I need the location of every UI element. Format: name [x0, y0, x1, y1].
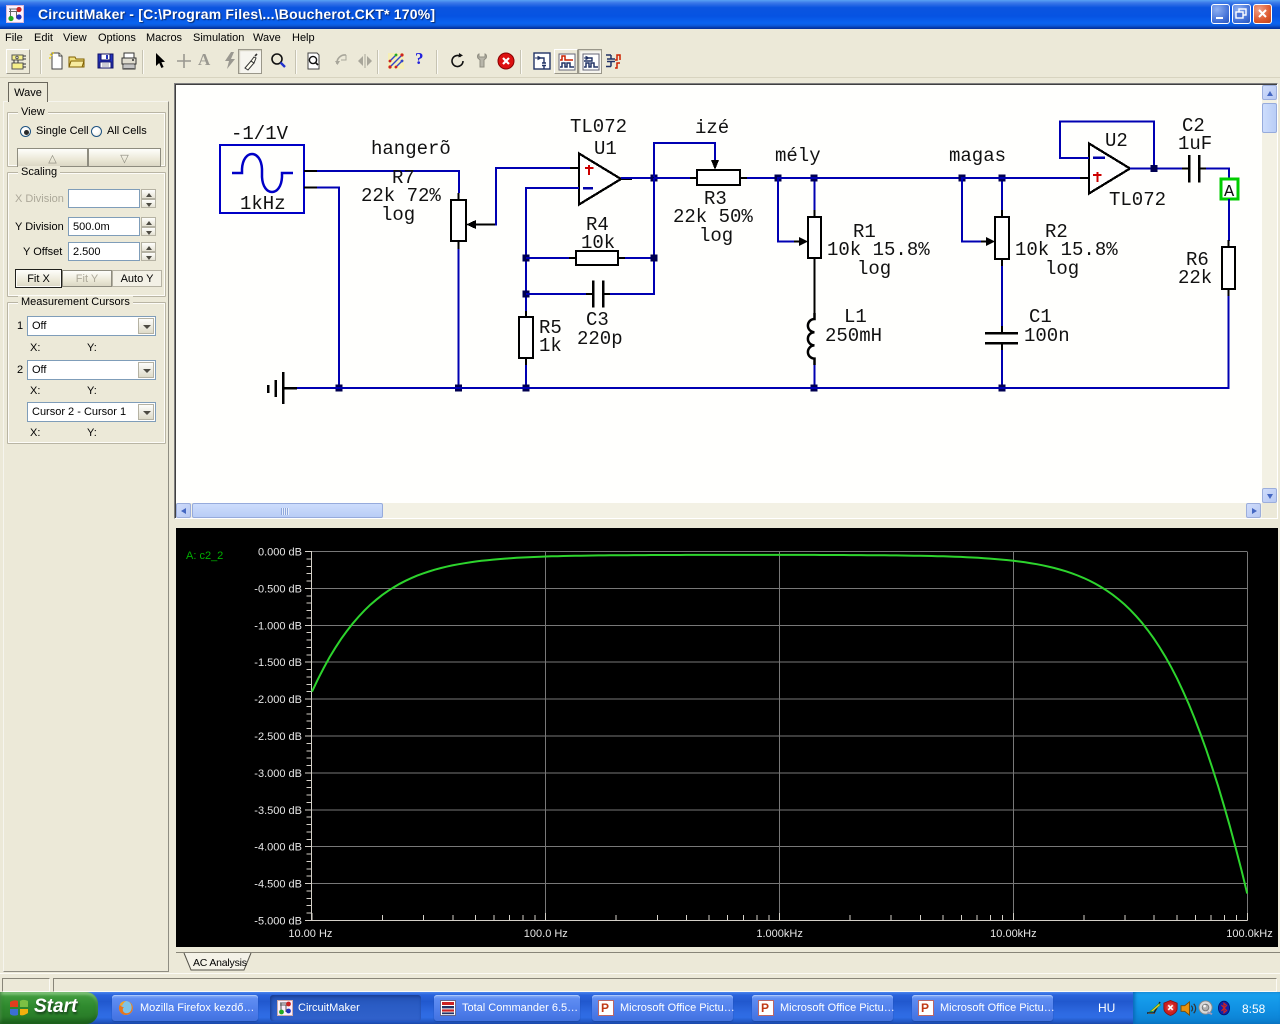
inductor L1	[808, 313, 815, 365]
ground rail wire	[292, 387, 1230, 389]
wire: R7 wiper to U1 noninverting input	[495, 167, 580, 226]
toolbar	[0, 46, 1280, 78]
potentiometer R2	[981, 210, 1009, 266]
ground symbol	[268, 372, 297, 404]
svg-text:-5.000 dB: -5.000 dB	[254, 916, 302, 928]
svg-text:TL072: TL072	[570, 116, 627, 138]
wire: U2 output to C2	[1130, 168, 1183, 170]
junction: R1 top at bus	[811, 175, 818, 182]
wire: R7 bottom to ground rail	[458, 249, 460, 389]
language indicator	[1098, 1001, 1115, 1015]
svg-text:0.000 dB: 0.000 dB	[258, 547, 302, 559]
junction: mely branch	[775, 175, 782, 182]
svg-text:-1.000 dB: -1.000 dB	[254, 620, 302, 632]
R5 value label	[539, 317, 562, 357]
wire: U1 inverting input	[525, 187, 579, 189]
wire: bus to R2 top	[1001, 178, 1003, 210]
C2 value label	[1178, 115, 1212, 155]
wire: U2 feedback loop	[1059, 121, 1155, 170]
wire: output node up and over to R3 wiper	[653, 142, 716, 177]
svg-text:10k: 10k	[581, 232, 615, 254]
svg-text:-1/1V: -1/1V	[231, 123, 289, 145]
wire: U2 inverting input	[1059, 157, 1089, 159]
potentiometer R3	[690, 160, 747, 185]
circuit area	[174, 83, 1278, 519]
L1 value label	[825, 306, 882, 347]
svg-text:A: c2_2: A: c2_2	[186, 550, 223, 562]
C1 value label	[1024, 306, 1070, 347]
svg-text:100n: 100n	[1024, 325, 1070, 347]
taskbar	[0, 992, 1280, 1024]
potentiometer R1	[794, 210, 821, 275]
junction: R5 at ground rail	[523, 385, 530, 392]
junction: source bottom at ground rail	[336, 385, 343, 392]
wire: source bottom to ground rail	[317, 187, 340, 390]
svg-text:log: log	[1045, 258, 1079, 280]
svg-text:log: log	[381, 204, 415, 226]
AC analysis trace	[312, 555, 1247, 894]
resistor R6	[1222, 240, 1235, 296]
wire: R3 right to mely node	[747, 177, 779, 179]
wire: C3 left to inverting node	[526, 293, 586, 295]
svg-text:-3.500 dB: -3.500 dB	[254, 805, 302, 817]
svg-text:22k: 22k	[1178, 267, 1212, 289]
task buttons	[112, 995, 258, 1021]
wire: output node to R3 left	[654, 177, 690, 179]
wire: bus mély to magas	[778, 177, 963, 179]
potentiometer R7	[451, 193, 497, 249]
R6 value label	[1178, 249, 1212, 289]
svg-text:-1.500 dB: -1.500 dB	[254, 657, 302, 669]
R1 value label	[827, 221, 930, 280]
wire: R4 left to inverting node	[526, 257, 569, 259]
junction: magas branch	[959, 175, 966, 182]
wire: inverting node vertical (to R4/C3/R5)	[525, 187, 527, 311]
svg-text:100.0 Hz: 100.0 Hz	[524, 928, 568, 940]
left panel	[8, 82, 48, 102]
wire: node A to R6	[1228, 199, 1230, 241]
wire: U1 output to feedback node	[621, 177, 655, 179]
svg-text:log: log	[857, 258, 891, 280]
wire: source output to R7 top (net hangerõ)	[317, 170, 460, 193]
axis labels	[254, 547, 1272, 941]
wire: R1 bottom to L1	[814, 275, 816, 313]
wire: C1 bottom to ground rail	[1001, 350, 1003, 389]
wire: R6 bottom to ground rail	[1228, 296, 1230, 389]
svg-text:1k: 1k	[539, 335, 562, 357]
svg-text:U1: U1	[594, 138, 617, 160]
junction: R2 top at bus	[999, 175, 1006, 182]
wire: bus to R1 top	[814, 178, 816, 210]
junction: C3 left	[523, 291, 530, 298]
wire: L1 bottom to ground rail	[814, 365, 816, 389]
wire: R2 bottom to C1	[1001, 266, 1003, 327]
svg-text:U2: U2	[1105, 130, 1128, 152]
svg-text:-3.000 dB: -3.000 dB	[254, 768, 302, 780]
R4 value label	[581, 214, 615, 254]
junction: U1 output node	[651, 175, 658, 182]
svg-text:-4.500 dB: -4.500 dB	[254, 879, 302, 891]
svg-text:log: log	[699, 225, 733, 247]
wire: R5 bottom to ground rail	[525, 365, 527, 389]
wave pane	[176, 528, 1278, 947]
svg-text:1kHz: 1kHz	[240, 193, 286, 215]
junction: L1 at ground rail	[811, 385, 818, 392]
junction: U2 output / feedback	[1150, 165, 1157, 172]
start button	[0, 992, 98, 1024]
svg-text:mély: mély	[775, 145, 821, 167]
wire: magas node down to R2 wiper	[961, 177, 983, 243]
circuit scrollbars	[1262, 85, 1277, 503]
R2 value label	[1015, 221, 1118, 280]
wire: bus magas to U2 noninverting input	[962, 177, 1089, 179]
svg-text:220p: 220p	[577, 328, 623, 350]
op-amp U2	[1080, 144, 1141, 194]
svg-text:AC Analysis: AC Analysis	[193, 957, 247, 969]
axis ticks	[305, 552, 1248, 921]
test point A	[1221, 179, 1238, 202]
resistor R4	[569, 251, 625, 265]
junction: R4 left	[523, 255, 530, 262]
op-amp U1	[570, 154, 632, 205]
svg-text:TL072: TL072	[1109, 189, 1166, 211]
resistor R5	[519, 311, 533, 365]
wire: C2 to node A corner	[1206, 168, 1230, 181]
junction: R7 at ground rail	[455, 385, 462, 392]
wire: C3 right to feedback vertical	[610, 293, 655, 295]
junction: C1 at ground rail	[999, 385, 1006, 392]
svg-text:izé: izé	[695, 117, 729, 139]
system tray	[1133, 992, 1280, 1024]
svg-text:-4.000 dB: -4.000 dB	[254, 842, 302, 854]
C3 value label	[577, 309, 623, 350]
status bar	[0, 973, 1280, 992]
menu bar	[0, 29, 1280, 46]
svg-text:hangerõ: hangerõ	[371, 138, 451, 160]
capacitor C2	[1182, 155, 1206, 183]
axes	[312, 551, 1248, 921]
svg-text:10.00 Hz: 10.00 Hz	[288, 928, 332, 940]
svg-text:250mH: 250mH	[825, 325, 882, 347]
capacitor C1	[985, 326, 1018, 350]
svg-text:100.0kHz: 100.0kHz	[1226, 928, 1272, 940]
junction: R4 right / feedback	[651, 255, 658, 262]
R7 value label	[361, 167, 441, 226]
svg-text:10.00kHz: 10.00kHz	[990, 928, 1036, 940]
svg-text:-2.500 dB: -2.500 dB	[254, 731, 302, 743]
wire: mely node down to R1 wiper	[777, 177, 796, 243]
tab row	[176, 948, 1280, 973]
capacitor C3	[586, 281, 610, 308]
svg-text:1uF: 1uF	[1178, 133, 1212, 155]
wire: R4 right to output node	[625, 178, 655, 295]
svg-text:1.000kHz: 1.000kHz	[756, 928, 802, 940]
R3 value label	[673, 188, 753, 247]
svg-text:-0.500 dB: -0.500 dB	[254, 583, 302, 595]
signal source V1 (sine generator)	[220, 145, 317, 213]
title bar	[0, 0, 1280, 29]
svg-text:magas: magas	[949, 145, 1006, 167]
svg-text:-2.000 dB: -2.000 dB	[254, 694, 302, 706]
